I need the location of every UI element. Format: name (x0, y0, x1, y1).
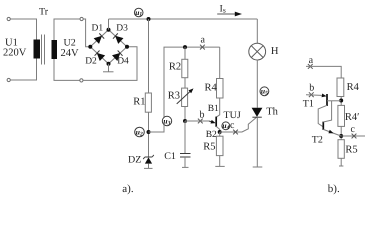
transformer core (41, 35, 43, 65)
node u1 label (134, 8, 143, 18)
node c junction subcircuit (339, 134, 343, 138)
svg-text:R2: R2 (169, 62, 181, 73)
wire R5 bottom lead subcircuit (340, 158, 342, 166)
wire emitter TUJ (185, 120, 216, 125)
wire primary bottom (11, 59, 37, 81)
connector circle secondary bottom (80, 79, 83, 82)
wire lamp top lead (256, 19, 258, 44)
wire gate to thyristor (220, 117, 257, 132)
svg-text:U2: U2 (64, 37, 76, 48)
transistor T1 emitter wire (306, 93, 327, 98)
test point b marker subcircuit (309, 92, 314, 97)
svg-text:220V: 220V (3, 47, 27, 58)
diode D2 (94, 50, 105, 61)
primary terminal bottom (7, 78, 10, 81)
svg-text:H: H (271, 46, 279, 57)
node bridge left (88, 45, 92, 49)
svg-text:c: c (230, 120, 235, 131)
wire thyristor cathode (256, 117, 258, 167)
test point c marker (233, 130, 238, 135)
svg-text:D3: D3 (116, 23, 128, 33)
svg-text:a).: a). (122, 183, 134, 195)
resistor R2 (182, 59, 188, 77)
wire R4 top lead (219, 47, 221, 78)
wire B2 lead (216, 126, 220, 132)
resistor R1 (145, 93, 151, 112)
wire R4' to R5 lead (340, 126, 342, 139)
transistor T2 emitter wire (323, 129, 341, 136)
test point a marker subcircuit (308, 64, 313, 69)
node X junction subcircuit (339, 99, 343, 103)
node u5 label (260, 87, 269, 97)
svg-text:a: a (201, 35, 206, 46)
svg-text:Is: Is (220, 3, 226, 14)
resistor R4 subcircuit (337, 78, 344, 97)
wire R1 top lead (148, 19, 150, 93)
ground bridge (103, 64, 114, 72)
ground R5 (215, 165, 224, 167)
node bridge top (107, 28, 111, 32)
wire c branch subcircuit (341, 135, 365, 137)
wire C1 top lead (184, 121, 186, 154)
bridge edge wires (90, 30, 127, 64)
arrow Is (217, 12, 242, 17)
diode D4 (112, 50, 123, 61)
terminal tick R5 subcircuit (339, 165, 343, 167)
connector circle secondary top (80, 17, 83, 20)
svg-text:c: c (351, 124, 356, 135)
wire C1 bottom lead (184, 157, 186, 167)
wire B1 lead (216, 98, 220, 117)
wire R2-R3 lead (184, 78, 186, 88)
test point c marker subcircuit (352, 134, 357, 139)
node u4 junction (218, 130, 222, 134)
node u2 label (135, 127, 145, 137)
wire u2 to rail (149, 47, 220, 132)
primary winding U1 (34, 40, 41, 59)
ground thyristor (253, 166, 263, 168)
svg-text:DZ: DZ (128, 155, 141, 166)
test point b marker (198, 119, 203, 124)
wire primary top (11, 19, 37, 40)
wire secondary bottom (54, 59, 80, 80)
svg-text:D1: D1 (92, 23, 104, 33)
wire secondary bottom to bridge right (83, 47, 137, 81)
capacitor C1 (180, 154, 191, 158)
ground DZ (144, 167, 153, 169)
wire T2 collector to node X line (323, 101, 331, 122)
svg-text:D2: D2 (85, 56, 97, 66)
transistor T1 base bar (326, 94, 328, 106)
svg-text:R3: R3 (168, 91, 180, 102)
node bridge bottom (107, 62, 111, 66)
wire T1 base to node X (327, 100, 341, 102)
test point a marker (200, 45, 205, 50)
svg-text:T2: T2 (312, 135, 323, 146)
svg-text:D4: D4 (117, 56, 129, 66)
wire R3 bottom lead (184, 107, 186, 122)
svg-text:Tr: Tr (39, 6, 49, 17)
resistor R4' subcircuit (338, 105, 345, 126)
svg-text:R5: R5 (345, 145, 357, 156)
svg-text:Th: Th (266, 106, 278, 117)
node u2 junction (147, 130, 151, 134)
lamp H (249, 43, 266, 60)
secondary winding U2 (52, 40, 58, 59)
ground C1 (182, 166, 189, 168)
potentiometer R3 (177, 87, 195, 107)
svg-text:b: b (309, 83, 314, 94)
transistor T2 base bar (322, 122, 324, 130)
svg-text:24V: 24V (61, 48, 80, 59)
node bridge right (125, 45, 129, 49)
wire R1 bottom lead (148, 112, 150, 157)
diode D3 (112, 33, 123, 44)
node u3 junction (183, 119, 187, 123)
node u4 label (222, 121, 230, 131)
wire top rail u1 (109, 18, 258, 20)
wire R5 bottom lead (219, 156, 221, 167)
svg-text:R4: R4 (205, 82, 218, 93)
wire T1 collector to T2 base (318, 105, 327, 127)
node u3 label (162, 116, 171, 126)
svg-text:a: a (309, 55, 314, 66)
svg-text:T1: T1 (303, 99, 314, 110)
zener diode DZ (143, 155, 154, 169)
svg-text:B2: B2 (206, 130, 217, 140)
wire a to R4 subcircuit (306, 66, 341, 78)
resistor R5 (216, 136, 223, 155)
wire R2 top lead (184, 47, 186, 59)
svg-text:R4′: R4′ (345, 112, 360, 123)
node junction top R1 (147, 17, 151, 21)
svg-text:R4: R4 (347, 82, 360, 93)
resistor R5 subcircuit (338, 140, 344, 159)
svg-text:b: b (200, 109, 205, 120)
thyristor Th (252, 108, 263, 117)
wire bridge riser (108, 19, 110, 30)
node junction R2 top (183, 45, 187, 49)
svg-text:R5: R5 (203, 142, 215, 153)
wire secondary top to bridge left (83, 19, 90, 47)
svg-text:b).: b). (328, 183, 340, 195)
transistor TUJ base bar (215, 117, 217, 127)
svg-text:R1: R1 (133, 96, 145, 107)
primary terminal top (7, 17, 10, 20)
resistor R4 (217, 79, 224, 99)
wire secondary top (54, 19, 80, 40)
wire lamp to thyristor (256, 60, 258, 108)
svg-text:C1: C1 (164, 151, 176, 162)
wire R4 to R4' lead (340, 97, 342, 106)
diode D1 (94, 33, 105, 44)
wire R5 top lead (219, 132, 221, 136)
svg-text:B1: B1 (208, 104, 219, 114)
